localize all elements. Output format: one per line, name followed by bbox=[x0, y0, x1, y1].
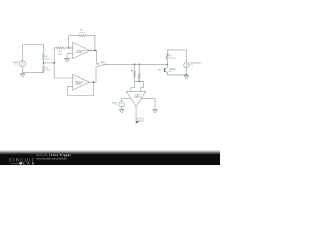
wire emitter to ground bbox=[167, 73, 186, 75]
svg-text:5 V: 5 V bbox=[190, 64, 194, 66]
comparator U2 (pointing down) bbox=[126, 91, 146, 107]
wire OA2 output bbox=[89, 81, 96, 83]
svg-text:5 V: 5 V bbox=[15, 64, 19, 66]
node tap R7 bbox=[138, 63, 140, 65]
svg-text:100kΩ: 100kΩ bbox=[78, 32, 85, 34]
ground (below V1) bbox=[20, 73, 25, 77]
ground (OA1 plus input) bbox=[65, 58, 70, 62]
wire OA2 minus feedback loop bbox=[68, 82, 94, 95]
op-amp OA1 bbox=[73, 42, 90, 58]
resistor R2 bbox=[42, 63, 44, 73]
ground (U2 right pin) bbox=[153, 110, 158, 113]
wire U2 right power pin to ground bbox=[141, 99, 155, 110]
label V1 bbox=[13, 30, 202, 107]
wire to U2 left input pin bbox=[131, 81, 135, 91]
wire bottom block bus bbox=[135, 80, 144, 82]
node junction right block bbox=[166, 63, 168, 65]
wire top rail bbox=[167, 49, 186, 51]
voltage source V2 bbox=[185, 50, 187, 63]
svg-text:10kΩ: 10kΩ bbox=[45, 70, 50, 72]
svg-text:LM393: LM393 bbox=[76, 52, 82, 54]
wire U2 output bbox=[135, 107, 137, 124]
resistor R6 branch bbox=[134, 64, 136, 81]
wire V3 to U2 left power pin bbox=[122, 99, 131, 102]
svg-text:4.7kΩ: 4.7kΩ bbox=[169, 58, 175, 60]
wire OA1 output bbox=[90, 49, 97, 51]
resistor R1 bbox=[42, 53, 44, 63]
node ground junction bbox=[185, 74, 187, 76]
wire collector bbox=[165, 64, 168, 69]
svg-text:LM393: LM393 bbox=[135, 97, 141, 99]
wire switch common to right block bbox=[106, 63, 167, 65]
node divider tap bbox=[43, 62, 45, 64]
wire feedback left leg bbox=[69, 36, 79, 48]
wire tap to riser bbox=[43, 62, 54, 64]
resistor R3 bbox=[54, 47, 72, 49]
resistor R5 (feedback) bbox=[78, 35, 95, 37]
wire divider top segment bbox=[42, 45, 44, 54]
svg-text:+: + bbox=[130, 93, 132, 95]
node tap R6 bbox=[134, 63, 136, 65]
svg-text:KutLofv / Line Trigger: KutLofv / Line Trigger bbox=[36, 153, 71, 157]
svg-text:+: + bbox=[74, 78, 76, 80]
wire riser (tap up to R3 level, down to OA2 input) bbox=[54, 48, 72, 78]
switch SW1 bbox=[97, 50, 98, 64]
voltage source V3 bbox=[119, 102, 125, 108]
svg-text:npn: npn bbox=[169, 71, 172, 73]
op-amp input polarity glyphs bbox=[74, 48, 142, 95]
svg-text:SW1: SW1 bbox=[101, 62, 105, 64]
svg-text:10kΩ: 10kΩ bbox=[58, 54, 63, 56]
ground (V3) bbox=[119, 109, 124, 112]
svg-text:www.circuitlab.com/c/685dxb: www.circuitlab.com/c/685dxb bbox=[36, 157, 67, 160]
label op-amp OA1 bbox=[75, 49, 141, 99]
ground (V2 / LED) bbox=[184, 75, 189, 78]
op-amp OA2 (follower) bbox=[73, 74, 90, 90]
wire V3 bottom bbox=[121, 107, 123, 109]
voltage source V1 bbox=[20, 61, 26, 67]
svg-text:LM393: LM393 bbox=[75, 84, 81, 86]
transistor Q1 bbox=[164, 69, 166, 72]
svg-text:Q1: Q1 bbox=[158, 70, 160, 72]
svg-text:1 V: 1 V bbox=[114, 105, 118, 107]
svg-text:−: − bbox=[140, 93, 142, 95]
svg-text:CIRCUIT: CIRCUIT bbox=[9, 158, 35, 163]
node OA2 feedback junction bbox=[93, 81, 95, 83]
wire feedback right leg bbox=[94, 36, 96, 51]
node riser tap bbox=[53, 62, 55, 64]
resistor R4 bbox=[166, 50, 169, 64]
svg-text:10kΩ: 10kΩ bbox=[45, 58, 50, 60]
logo CircuitLab bbox=[9, 158, 35, 166]
resistor R7 branch bbox=[138, 64, 140, 81]
flag (output probe tag) bbox=[136, 118, 144, 124]
node OA1 output/feedback junction bbox=[94, 50, 96, 52]
node feedback tap bbox=[68, 47, 70, 49]
svg-text:LAB: LAB bbox=[23, 162, 35, 166]
svg-text:−: − bbox=[74, 86, 76, 88]
wire to U2 right input pin bbox=[141, 81, 144, 91]
wire V1 top to divider top bbox=[23, 45, 44, 61]
wire switch lower throw to OA2 output bbox=[96, 67, 98, 83]
footer title text bbox=[36, 153, 71, 160]
wire OA1 plus input to ground bbox=[67, 53, 73, 58]
wire V1 bottom bbox=[23, 67, 44, 73]
